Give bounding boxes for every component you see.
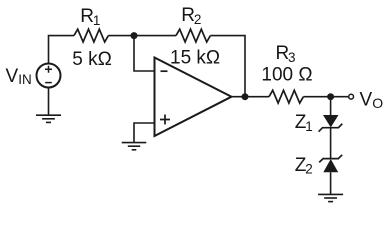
node: VO junction dot: [327, 93, 334, 100]
wire: op-amp output to R3: [232, 96, 270, 98]
zener diode Z1 triangle (anode): [323, 115, 339, 127]
ground (op-amp non-inverting input): [122, 143, 147, 150]
resistor R2: [176, 29, 210, 42]
svg-text:R1: R1: [80, 6, 100, 28]
wire: VIN top lead up and right to R1: [49, 36, 75, 64]
zener diode Z1 (cathode bar with bent ends): [319, 124, 343, 132]
wire: R2 to feedback corner, down to output node: [210, 36, 245, 97]
wire: node A to R2: [134, 35, 176, 37]
resistor R3: [269, 90, 303, 103]
wire: R3 to VO terminal: [303, 96, 348, 98]
wire: R1 to node A: [108, 35, 134, 37]
wire: VO node down to Z1: [330, 97, 332, 115]
wire: VIN bottom lead down to ground: [48, 88, 50, 115]
svg-text:15 kΩ: 15 kΩ: [170, 47, 220, 68]
svg-text:5 kΩ: 5 kΩ: [72, 49, 112, 70]
wire: node A down to inverting input: [134, 36, 155, 71]
terminal VO (open circle): [349, 94, 354, 99]
svg-text:100 Ω: 100 Ω: [261, 64, 312, 85]
wire: non-inverting input left and down to ground: [134, 123, 155, 143]
zener diode Z2 (cathode bar with bent ends): [319, 155, 342, 163]
ground (zener string): [318, 194, 343, 201]
voltage source VIN (circle with +/-): [37, 64, 61, 88]
svg-text:R2: R2: [181, 5, 201, 27]
wire: Z1 to Z2: [330, 128, 332, 159]
svg-text:Z1: Z1: [295, 112, 313, 134]
resistor R1: [74, 29, 108, 42]
svg-text:Z2: Z2: [295, 155, 313, 177]
node: output junction dot: [242, 93, 249, 100]
zener diode Z2 triangle (anode): [323, 159, 338, 172]
ground (VIN source): [36, 115, 61, 122]
wire: Z2 to ground: [330, 172, 332, 194]
svg-text:R3: R3: [276, 43, 296, 65]
node A junction dot: [131, 32, 138, 39]
op-amp U1: [155, 58, 232, 137]
svg-text:VIN: VIN: [6, 66, 32, 87]
svg-text:VO: VO: [360, 90, 384, 112]
